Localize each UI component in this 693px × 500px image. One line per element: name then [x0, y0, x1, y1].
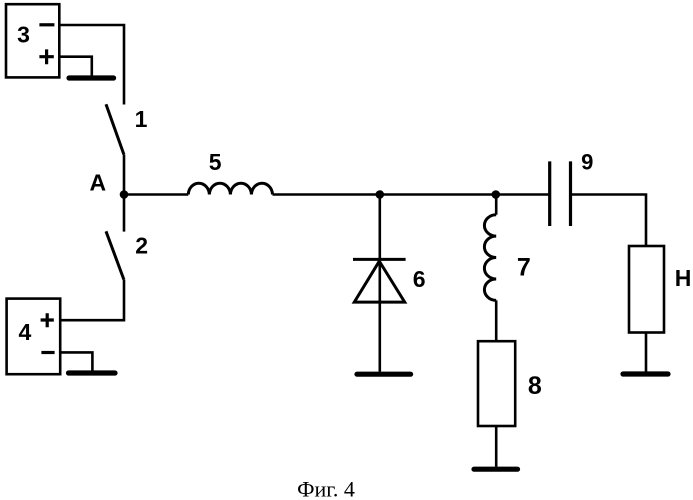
- battery 3 minus terminal: [39, 23, 54, 26]
- node B junction dot: [376, 190, 385, 199]
- inductor L7: [484, 215, 496, 301]
- svg-text:Фиг. 4: Фиг. 4: [297, 477, 355, 500]
- wire from battery 4 minus to ground: [60, 352, 92, 370]
- svg-text:Н: Н: [675, 265, 692, 291]
- capacitor C9 right plate: [569, 161, 572, 226]
- svg-text:3: 3: [17, 22, 30, 48]
- wire node B to node C: [380, 193, 496, 196]
- wire node C to inductor 7: [495, 195, 498, 215]
- switch 2 blade: [106, 231, 124, 279]
- wire inductor 7 to resistor 8: [495, 300, 498, 341]
- node A junction dot: [120, 190, 129, 199]
- svg-text:4: 4: [19, 319, 32, 345]
- diode VD6 cathode bar: [353, 258, 406, 261]
- diode VD6 triangle: [354, 261, 404, 302]
- wire from battery 3 minus to switch 1: [59, 25, 124, 105]
- battery 3 box: [6, 4, 59, 77]
- ground under diode 6: [357, 372, 411, 377]
- wire node C to capacitor 9: [496, 193, 550, 196]
- battery 4 box: [7, 299, 61, 375]
- wire node A to inductor 5: [124, 193, 188, 196]
- ground under resistor 8: [474, 467, 518, 472]
- switch 1 blade: [106, 104, 124, 154]
- svg-text:A: A: [89, 170, 106, 196]
- wire node A to switch 2: [123, 195, 126, 232]
- load resistor H body: [629, 246, 664, 333]
- wire load H to ground: [645, 333, 648, 372]
- svg-text:7: 7: [517, 254, 531, 282]
- wire capacitor 9 to load H: [571, 195, 647, 247]
- wire from battery 3 plus to ground: [59, 57, 92, 76]
- wire switch 2 to battery 4 plus: [60, 280, 124, 321]
- svg-text:5: 5: [209, 149, 222, 175]
- wire node B down through diode to ground: [378, 195, 381, 372]
- battery 4 plus terminal: [41, 313, 54, 327]
- node C junction dot: [492, 190, 501, 199]
- battery 3 plus terminal: [39, 49, 53, 64]
- resistor R8 body: [478, 341, 515, 426]
- ground under battery 4: [69, 370, 116, 375]
- ground under load H: [623, 371, 668, 376]
- svg-text:9: 9: [581, 150, 593, 175]
- capacitor C9 left plate: [548, 161, 551, 226]
- ground under battery 3: [69, 75, 114, 80]
- inductor L5: [188, 183, 272, 194]
- wire switch 1 to node A: [123, 155, 126, 195]
- svg-text:2: 2: [135, 233, 148, 259]
- wire inductor 5 to node B: [273, 193, 380, 196]
- svg-text:1: 1: [135, 106, 148, 132]
- svg-text:8: 8: [528, 372, 542, 400]
- svg-text:6: 6: [413, 266, 426, 292]
- battery 4 minus terminal: [41, 351, 54, 354]
- wire resistor 8 to ground: [495, 426, 498, 467]
